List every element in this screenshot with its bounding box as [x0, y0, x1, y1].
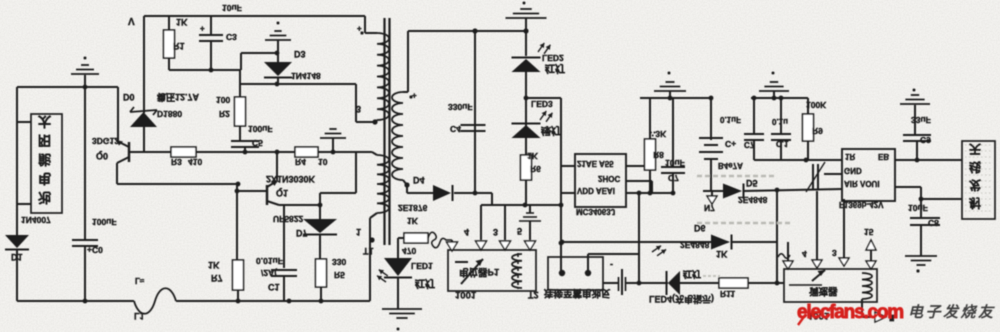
- bottom rail wire: [17, 300, 134, 302]
- svg-text:1K: 1K: [208, 260, 220, 270]
- svg-text:射: 射: [968, 196, 981, 211]
- svg-text:GND: GND: [844, 166, 862, 175]
- label 12V zener text: [157, 92, 200, 103]
- svg-text:R9: R9: [812, 126, 823, 136]
- svg-text:T2: T2: [528, 290, 539, 300]
- wire: [703, 190, 723, 192]
- svg-text:1001: 1001: [455, 289, 477, 300]
- svg-text:C7: C7: [744, 140, 755, 149]
- wire: [283, 205, 285, 268]
- label 2E4848 for D5: [738, 195, 768, 205]
- ground: [382, 309, 422, 331]
- junction: [637, 281, 642, 286]
- junction terminal: [404, 182, 409, 187]
- wire pin5: [529, 221, 531, 240]
- pin arrow: [783, 261, 793, 269]
- control box with potentiometer: [448, 250, 536, 291]
- wire mid rail: [117, 183, 237, 185]
- terminal: [559, 270, 591, 276]
- label R4: [295, 157, 306, 167]
- wire: [244, 147, 246, 152]
- wire: [17, 203, 31, 205]
- svg-text:0.01uF: 0.01uF: [256, 256, 283, 266]
- svg-text:Q1: Q1: [276, 188, 288, 198]
- resistor R70: [398, 233, 428, 243]
- label red lamp: [545, 62, 565, 75]
- label 15: [864, 227, 874, 237]
- wire pin stub right: [626, 181, 652, 193]
- label LED1: [411, 261, 433, 271]
- label R7: [211, 273, 223, 283]
- svg-text:VDD AEAI: VDD AEAI: [577, 186, 615, 195]
- junction: [559, 241, 564, 246]
- svg-text:LED4(充电指示): LED4(充电指示): [649, 294, 714, 305]
- resistor R4: [295, 147, 318, 157]
- svg-text:天: 天: [969, 142, 982, 156]
- svg-text:elecfans.com: elecfans.com: [797, 302, 903, 323]
- svg-text:+: +: [200, 24, 205, 33]
- svg-text:EB: EB: [878, 152, 889, 161]
- junction: [560, 240, 565, 245]
- terminal dot: [369, 237, 374, 242]
- microphone: [806, 162, 825, 192]
- capacitor C1: [271, 270, 297, 301]
- junction: [523, 203, 564, 208]
- wire: [525, 180, 527, 205]
- pin arrow: [500, 241, 511, 250]
- wire: [526, 98, 561, 166]
- svg-text:阳: 阳: [38, 133, 51, 148]
- junction terminal: [372, 119, 377, 124]
- wire base: [237, 190, 266, 192]
- wire: [451, 240, 453, 242]
- label 1K: [716, 249, 728, 259]
- LED D LED3: [512, 124, 541, 139]
- resistor R6: [521, 155, 532, 180]
- wire: [277, 78, 279, 84]
- svg-text:1K: 1K: [716, 249, 728, 259]
- wire: [318, 151, 356, 153]
- transistor Q1: [267, 180, 279, 205]
- svg-text:330: 330: [332, 257, 346, 267]
- wire pin stub: [561, 165, 575, 167]
- svg-text:R7: R7: [211, 273, 223, 283]
- label 410: [188, 157, 202, 167]
- svg-text:F1369b-42V: F1369b-42V: [839, 200, 884, 209]
- svg-text:Q0: Q0: [96, 151, 108, 161]
- label LED4: [649, 294, 714, 305]
- pin arrow: [839, 258, 849, 266]
- wire: [776, 190, 778, 283]
- wire: [481, 204, 561, 206]
- label T2: [528, 290, 539, 300]
- label 100 for R2: [216, 95, 230, 105]
- label 2E1876 for D4: [398, 203, 428, 213]
- IC U1 MC34063: [575, 154, 626, 207]
- svg-text:100uF: 100uF: [248, 124, 273, 134]
- wire: [17, 121, 31, 123]
- potentiometer arrow: [789, 270, 825, 285]
- wire: [680, 282, 719, 284]
- label R3: [171, 157, 182, 167]
- watermark mark: [798, 314, 806, 325]
- label 2X1N3030K for Q1: [266, 174, 316, 184]
- ground: [265, 22, 291, 63]
- label MC34063J: [576, 207, 615, 216]
- junction: [318, 203, 323, 208]
- label 10uF: [908, 203, 928, 213]
- label 1001: [455, 289, 477, 300]
- wire: [356, 84, 375, 122]
- diode D7: [303, 219, 337, 235]
- svg-text:1R: 1R: [845, 152, 855, 161]
- svg-text:红灯: 红灯: [545, 62, 565, 75]
- svg-text:∴3K: ∴3K: [650, 129, 667, 139]
- coil T2: [512, 254, 522, 288]
- wire: [116, 163, 118, 184]
- wire pin stub: [778, 242, 790, 261]
- label C10: [744, 140, 755, 149]
- svg-text:C4: C4: [450, 124, 461, 134]
- mark: [916, 269, 919, 272]
- svg-text:B4e7A: B4e7A: [718, 161, 743, 170]
- coil T3: [862, 273, 872, 317]
- svg-text:调速器: 调速器: [809, 285, 838, 297]
- ground: [900, 95, 930, 135]
- junction: [709, 96, 714, 101]
- svg-text:1K: 1K: [527, 151, 539, 161]
- capacitor C11: [771, 98, 791, 160]
- label C5: [252, 138, 263, 148]
- battery E1: [603, 269, 626, 295]
- wire: [397, 278, 399, 309]
- svg-text:0.1uF: 0.1uF: [720, 115, 741, 124]
- wire: [241, 53, 278, 70]
- svg-text:R2: R2: [219, 109, 230, 119]
- label D3: [294, 49, 306, 59]
- label 1K for R7: [208, 260, 220, 270]
- wire: [588, 254, 639, 273]
- wire: [397, 238, 399, 258]
- label 3: [493, 227, 498, 237]
- label green lamp: [541, 124, 561, 137]
- wire: [144, 151, 171, 153]
- LED D LED1: [384, 258, 412, 278]
- svg-text:100: 100: [216, 95, 230, 105]
- svg-text:D5: D5: [746, 178, 758, 188]
- wire: [732, 241, 777, 243]
- wire: [626, 254, 669, 283]
- label R1: [173, 41, 185, 51]
- watermark elecfans.com: [797, 302, 903, 323]
- battery pack box: [31, 114, 62, 213]
- resistor R3: [171, 147, 196, 157]
- resistor R2: [235, 97, 246, 126]
- label D7: [296, 228, 308, 238]
- wire: [454, 193, 492, 205]
- svg-text:能: 能: [38, 152, 51, 167]
- svg-text:33uF: 33uF: [911, 115, 931, 125]
- svg-text:R4: R4: [295, 157, 306, 167]
- transformer T1 feedback winding: [356, 152, 389, 301]
- label LED2: [542, 53, 564, 63]
- transistor Q0: [116, 140, 144, 163]
- label 1K: [407, 216, 419, 226]
- power rail wire 2: [751, 97, 808, 99]
- scan artifact: [697, 175, 774, 178]
- label 10uF for C3: [222, 3, 242, 13]
- label C11: [776, 139, 789, 148]
- label 100uF for C0: [92, 217, 117, 227]
- IC U2 audio: [842, 149, 895, 201]
- wire pin stub: [816, 191, 818, 260]
- wire: [16, 250, 18, 301]
- LED D LED2: [512, 58, 541, 73]
- junction: [472, 28, 477, 33]
- power rail wire: [640, 97, 712, 99]
- svg-text:15: 15: [864, 227, 874, 237]
- pin flag: [707, 191, 717, 204]
- wire: [236, 184, 238, 260]
- diode D3: [264, 62, 292, 78]
- wire: [117, 87, 119, 141]
- junction: [331, 150, 336, 155]
- junction: [83, 299, 88, 304]
- diode D1: [5, 235, 29, 250]
- svg-text:电子发烧友: 电子发烧友: [908, 304, 996, 321]
- wire: [240, 83, 356, 85]
- label R6: [530, 164, 541, 174]
- wire: [474, 31, 476, 193]
- svg-text:3: 3: [356, 104, 361, 114]
- wire: [320, 152, 356, 193]
- label 1: [356, 227, 361, 237]
- svg-text:4: 4: [464, 227, 469, 237]
- junction: [209, 68, 214, 73]
- svg-text:330uF: 330uF: [448, 102, 473, 112]
- pin arrow: [476, 241, 487, 250]
- svg-text:R11: R11: [720, 289, 735, 299]
- label 330uF for C4: [448, 102, 473, 112]
- label 5: [517, 226, 522, 236]
- label D1: [11, 252, 23, 262]
- svg-text:1K: 1K: [176, 17, 188, 27]
- junction: [919, 197, 924, 202]
- diode D5: [723, 184, 744, 199]
- label C4: [450, 124, 461, 134]
- wire: [169, 69, 240, 71]
- resistor R8: [645, 98, 656, 193]
- wire: [744, 189, 842, 191]
- svg-text:0.1u: 0.1u: [772, 117, 788, 126]
- scan artifact: [703, 275, 720, 277]
- wire pin stub right: [626, 165, 644, 167]
- svg-text:连接至蓄电池反: 连接至蓄电池反: [544, 287, 611, 299]
- svg-text:2E4848: 2E4848: [680, 240, 710, 250]
- label C3: [226, 32, 237, 42]
- wire: [319, 193, 321, 219]
- svg-text:R6: R6: [530, 164, 541, 174]
- svg-text:C5: C5: [252, 138, 263, 148]
- svg-text:10uF: 10uF: [222, 3, 242, 13]
- junction: [275, 51, 280, 56]
- label 3K: [650, 129, 667, 139]
- diode D4: [433, 185, 453, 201]
- label minus: [610, 260, 613, 270]
- wire: [239, 70, 241, 99]
- wire pin4: [480, 205, 482, 240]
- label D5: [746, 178, 758, 188]
- junction: [473, 191, 478, 196]
- wire: [319, 234, 321, 259]
- wire: [143, 16, 145, 113]
- capacitor C3: [199, 16, 223, 70]
- label 3: [356, 104, 361, 114]
- capacitor C7: [661, 98, 685, 193]
- svg-text:C1: C1: [268, 282, 280, 292]
- wire: [824, 173, 842, 175]
- svg-text:R3: R3: [171, 157, 182, 167]
- label speed inside: [809, 285, 838, 297]
- wire: [196, 151, 295, 153]
- svg-text:电: 电: [38, 171, 51, 186]
- svg-text:C8: C8: [928, 218, 939, 228]
- svg-text:D1880: D1880: [157, 109, 182, 119]
- label V: [128, 15, 135, 26]
- watermark chinese: [908, 304, 996, 321]
- wire pin stub: [561, 192, 575, 194]
- svg-text:10: 10: [318, 157, 328, 167]
- label for fuse: [135, 276, 145, 285]
- resistor R5: [316, 259, 327, 287]
- svg-text:C7: C7: [668, 173, 679, 183]
- label 100K: [806, 100, 827, 110]
- label 0.1uF: [720, 115, 741, 124]
- svg-text:V: V: [128, 15, 135, 26]
- capacitor C0: [72, 87, 98, 301]
- wire VOUT: [895, 187, 921, 218]
- svg-text:T1: T1: [363, 246, 374, 256]
- svg-text:21AE A55: 21AE A55: [577, 159, 614, 168]
- label LED3: [531, 99, 553, 109]
- capacitor C4: [461, 125, 486, 131]
- label R2: [219, 109, 230, 119]
- ground: [654, 72, 686, 99]
- label 330: [332, 257, 346, 267]
- junction: [236, 182, 241, 187]
- svg-text:+C0: +C0: [87, 245, 103, 255]
- label D4: [413, 175, 425, 185]
- junction: [524, 96, 529, 101]
- label 33uF: [911, 115, 931, 125]
- svg-text:+: +: [412, 91, 417, 100]
- capacitor C8: [910, 218, 940, 225]
- ground: [506, 9, 547, 31]
- label C1: [268, 282, 280, 292]
- svg-text:电位器P1: 电位器P1: [459, 266, 500, 278]
- wire: [525, 31, 527, 56]
- label inside box: [459, 266, 500, 278]
- label 1001 dark: [808, 310, 830, 321]
- svg-text:1N4148: 1N4148: [291, 71, 321, 81]
- svg-text:10uF: 10uF: [908, 203, 928, 213]
- svg-text:C9: C9: [920, 135, 931, 145]
- LED1 arrows: [374, 267, 391, 284]
- svg-text:LED1: LED1: [411, 261, 433, 271]
- junction: [243, 150, 280, 155]
- svg-text:LED3: LED3: [531, 99, 553, 109]
- junction: [772, 96, 777, 101]
- antenna box: [962, 141, 995, 219]
- top rail wire: [144, 15, 365, 17]
- wire: [862, 316, 875, 318]
- wire emitter to node: [279, 204, 320, 206]
- junction: [235, 189, 240, 194]
- resistor R11: [719, 278, 748, 288]
- wire: [560, 166, 562, 243]
- svg-text:C3: C3: [226, 32, 237, 42]
- pin arrow: [447, 242, 458, 251]
- wire pin stub: [843, 199, 845, 258]
- label 10: [318, 157, 328, 167]
- label T1: [363, 246, 374, 256]
- svg-text:100uF: 100uF: [92, 217, 117, 227]
- svg-text:3: 3: [493, 227, 498, 237]
- capacitor C5: [231, 141, 259, 147]
- svg-text:C.1: C.1: [776, 139, 789, 148]
- svg-text:绿灯: 绿灯: [541, 124, 561, 137]
- resistor R9 100K: [803, 98, 814, 160]
- svg-text:3DG12: 3DG12: [92, 136, 119, 146]
- inductor squiggle: [428, 232, 452, 248]
- LED2 arrows: [536, 40, 553, 57]
- svg-text:红灯: 红灯: [415, 277, 435, 290]
- svg-text:+: +: [357, 24, 362, 33]
- capacitor C9: [903, 135, 931, 141]
- transformer T1 primary winding: [365, 16, 389, 120]
- svg-text:R1: R1: [173, 41, 185, 51]
- label R5: [334, 270, 345, 280]
- svg-text:AIR ΛOUI: AIR ΛOUI: [844, 179, 880, 188]
- label D1880 for D0: [157, 109, 182, 119]
- wire: [560, 241, 711, 243]
- svg-text:太: 太: [37, 114, 52, 129]
- fuse L1: [134, 288, 176, 314]
- junction: [83, 85, 88, 90]
- battery connect box: [548, 257, 603, 290]
- svg-text:-: -: [610, 260, 613, 270]
- svg-text:470: 470: [402, 246, 416, 256]
- label C8: [928, 218, 939, 228]
- label C0: [87, 245, 103, 255]
- junction: [775, 281, 780, 286]
- wire: [626, 192, 673, 194]
- diode D6: [711, 235, 732, 250]
- label 10uF for C7: [665, 158, 685, 168]
- label red lamp: [415, 277, 435, 290]
- dashed core: [517, 253, 519, 289]
- label 1N4007 for D1: [21, 215, 51, 225]
- polarity mark: [409, 91, 417, 100]
- svg-text:L1: L1: [134, 311, 145, 321]
- svg-text:UF5822: UF5822: [273, 214, 304, 224]
- pin arrow: [866, 261, 876, 269]
- ground: [905, 256, 937, 265]
- junction: [637, 191, 642, 196]
- label L1: [134, 311, 145, 321]
- svg-text:3: 3: [832, 248, 837, 258]
- svg-text:D7: D7: [296, 228, 308, 238]
